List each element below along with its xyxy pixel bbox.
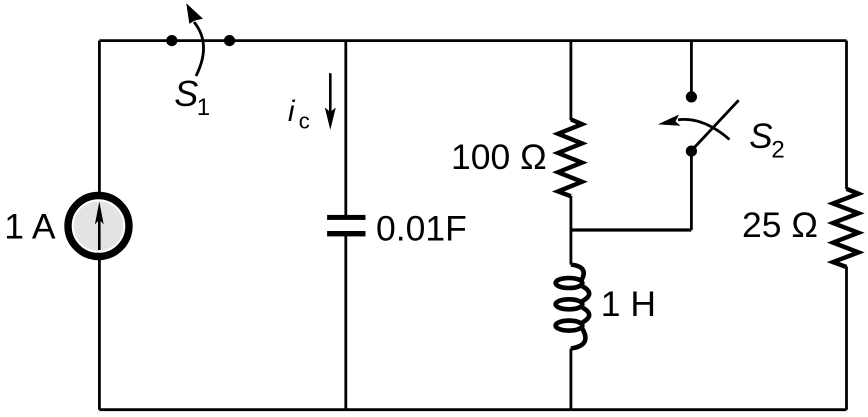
- svg-text:S: S: [174, 73, 198, 114]
- svg-text:S: S: [749, 117, 772, 156]
- svg-text:1: 1: [197, 94, 210, 121]
- svg-text:25 Ω: 25 Ω: [742, 205, 818, 245]
- svg-text:0.01F: 0.01F: [376, 208, 467, 248]
- svg-text:2: 2: [771, 137, 784, 164]
- svg-text:c: c: [299, 109, 310, 134]
- svg-text:1 H: 1 H: [601, 284, 656, 324]
- svg-text:1 A: 1 A: [4, 206, 56, 246]
- svg-text:100 Ω: 100 Ω: [451, 137, 547, 177]
- svg-text:i: i: [288, 95, 296, 128]
